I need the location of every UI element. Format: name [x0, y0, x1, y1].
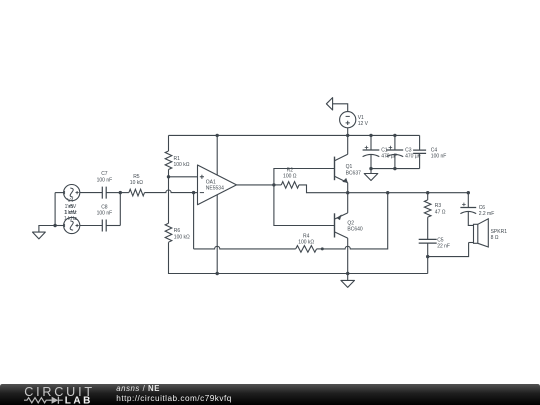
transistor Q1 (NPN BC637) [335, 154, 348, 183]
svg-text:10 kΩ: 10 kΩ [130, 180, 143, 186]
op-amp V- pin [216, 195, 218, 274]
wire R4 right [317, 248, 323, 250]
op-amp V+ pin [216, 135, 218, 175]
svg-text:R3: R3 [435, 203, 442, 209]
node Q1 emitter on rail [346, 191, 349, 194]
wire C6 to speaker [468, 212, 473, 226]
label C3 [405, 148, 421, 160]
wire to + input [169, 176, 198, 178]
wire - input down [193, 193, 195, 249]
svg-text:12 V: 12 V [358, 121, 369, 127]
footer title text [116, 384, 232, 403]
label Q2 [347, 221, 363, 233]
node + input junction [167, 175, 170, 178]
label C4 [431, 148, 447, 160]
svg-text:R5: R5 [133, 174, 140, 180]
node C1 bottom [369, 167, 372, 170]
node output junction [272, 183, 275, 186]
wire R3 to C5 [427, 217, 429, 239]
svg-text:http://circuitlab.com/c79kvfq: http://circuitlab.com/c79kvfq [116, 394, 232, 403]
svg-text:2.2 mF: 2.2 mF [479, 211, 495, 217]
label V1 [358, 115, 369, 127]
wire C7 to node [106, 192, 120, 194]
wire C5 bottom [427, 243, 429, 257]
svg-text:V5: V5 [67, 204, 73, 210]
wire output to R2 [274, 184, 281, 186]
ground (center) [341, 274, 355, 288]
node C6 top on rail [467, 191, 470, 194]
svg-text:V1: V1 [358, 115, 364, 121]
wire R3 top [427, 193, 429, 200]
capacitor C3 (polarized) [387, 146, 404, 157]
wire V1 to top rail [347, 128, 349, 136]
resistor R3 [424, 200, 431, 217]
label C6 [479, 205, 495, 217]
wire cap lower rail [371, 168, 420, 170]
capacitor C1 (polarized) [363, 146, 380, 157]
svg-text:R4: R4 [303, 233, 310, 239]
wire divider column to R6 [168, 177, 170, 224]
svg-text:100 nF: 100 nF [431, 154, 447, 160]
resistor R4 [296, 246, 317, 253]
speaker SPKR1 [474, 219, 489, 247]
resistor R1 [165, 151, 172, 169]
node R3 top on rail [426, 191, 429, 194]
node R4 right terminal [321, 247, 324, 250]
capacitor C6 (polarized) [460, 203, 476, 214]
node - input junction [192, 191, 195, 194]
wire left column vertical [54, 193, 56, 226]
svg-text:R1: R1 [174, 156, 181, 162]
node V- pin on ground rail [216, 272, 219, 275]
voltage source V1 [340, 112, 356, 128]
label OA1 [206, 179, 224, 191]
capacitor C4 [413, 150, 426, 153]
svg-text:100 kΩ: 100 kΩ [174, 234, 190, 240]
resistor R6 [165, 223, 172, 242]
wire C3 top lead [394, 135, 396, 150]
node C7/R5/C8 [119, 191, 122, 194]
transistor Q2 (PNP BC640) [335, 213, 348, 238]
wire C1 bottom lead [370, 155, 372, 169]
wire V5 right to C8 [80, 225, 103, 227]
svg-text:ansns / NE: ansns / NE [116, 384, 160, 393]
wire output up to Q1 base [274, 169, 335, 185]
op-amp OA1 [198, 165, 237, 205]
label R1 [174, 156, 190, 168]
wire C1 top lead [370, 135, 372, 150]
footer bar [0, 384, 540, 405]
wire top rail [169, 134, 420, 136]
label R5 [130, 174, 143, 186]
voltage source V4 (sine) [64, 185, 80, 201]
label C8 [97, 204, 113, 216]
wire C4 top lead [419, 135, 421, 150]
wire feedback horizontal with hops [194, 246, 296, 249]
resistor R5 [129, 189, 145, 196]
label C7 [97, 171, 113, 183]
wire C4 bottom lead [419, 153, 421, 168]
wire Q1 emitter to rail [347, 183, 349, 193]
label Q1 [346, 164, 362, 176]
node Q2 collector on ground rail [346, 272, 349, 275]
voltage source V5 (sine) [64, 217, 80, 233]
svg-text:C4: C4 [431, 148, 438, 154]
node junction left sources [53, 224, 56, 227]
ground (left) [33, 232, 46, 239]
svg-text:R6: R6 [174, 228, 181, 234]
wire C3 bottom lead [394, 155, 396, 169]
svg-text:8 Ω: 8 Ω [491, 235, 499, 241]
svg-text:Q1: Q1 [346, 164, 353, 170]
svg-text:100 kΩ: 100 kΩ [298, 239, 314, 245]
wire V4 right to C7 [80, 192, 103, 194]
logo resistor-diode glyph [24, 397, 63, 404]
svg-text:C5: C5 [437, 237, 444, 243]
ground (capacitor bank) [364, 169, 378, 181]
wire C8 to node column [106, 225, 120, 227]
label R2 [283, 168, 297, 180]
wire Q1 collector to top rail [347, 135, 349, 154]
wire to ground left [39, 226, 55, 233]
power flag at V1 [326, 98, 347, 112]
svg-text:100 Ω: 100 Ω [283, 174, 297, 180]
node C3 top [393, 134, 396, 137]
svg-text:C7: C7 [101, 171, 108, 177]
svg-text:NE5534: NE5534 [206, 186, 224, 192]
wire speaker bottom terminal [469, 242, 474, 244]
wire V4 left to left column [55, 192, 64, 194]
svg-text:V4: V4 [67, 198, 73, 204]
wire speaker bottom rail [428, 243, 469, 257]
wire Q2 collector down to ground rail [347, 238, 349, 273]
CircuitLab logo wordmark [24, 385, 95, 405]
svg-text:470 µF: 470 µF [405, 154, 421, 160]
label V4 [64, 198, 77, 216]
svg-text:C3: C3 [405, 148, 412, 154]
node C3 bottom [393, 167, 396, 170]
node V+ pin on top rail [216, 134, 219, 137]
svg-text:Q2: Q2 [347, 221, 354, 227]
capacitor C5 [419, 239, 437, 243]
svg-text:47 Ω: 47 Ω [435, 209, 446, 215]
node speaker return [426, 255, 429, 258]
wire R2 to emitter rail [299, 185, 468, 193]
svg-text:C6: C6 [479, 205, 486, 211]
svg-text:SPKR1: SPKR1 [491, 229, 508, 235]
wire node down to C8 level [119, 193, 121, 226]
label R4 [298, 233, 314, 245]
svg-text:100 kΩ: 100 kΩ [174, 162, 190, 168]
svg-text:BC637: BC637 [346, 170, 362, 176]
node C1 top [369, 134, 372, 137]
wire Q2 emitter to rail [347, 193, 349, 213]
label C1 [381, 148, 397, 160]
wire into - input [194, 192, 198, 194]
wire V5 left [55, 225, 64, 227]
node feedback on emitter rail [386, 191, 389, 194]
label R6 [174, 228, 190, 240]
label V5 [64, 204, 77, 222]
svg-text:22 nF: 22 nF [437, 244, 450, 250]
svg-text:LAB: LAB [65, 396, 93, 405]
op-amp output wire [237, 184, 274, 186]
label R3 [435, 203, 446, 215]
resistor R2 [281, 182, 299, 189]
svg-text:1 mV: 1 mV [65, 210, 77, 216]
svg-text:100 nF: 100 nF [97, 211, 113, 217]
wire R1 bottom [168, 170, 170, 177]
wire R4 to output column with hop over Q2 collector [322, 193, 387, 249]
wire ground rail up to speaker return [427, 257, 429, 274]
svg-text:BC640: BC640 [347, 227, 363, 233]
wire output down to Q2 base [274, 185, 335, 226]
svg-text:1 kHz: 1 kHz [64, 216, 77, 222]
wire R6 bottom to ground rail [169, 242, 428, 273]
svg-text:OA1: OA1 [206, 179, 216, 185]
svg-text:100 nF: 100 nF [97, 177, 113, 183]
node V1 on top rail [346, 134, 349, 137]
label C5 [437, 237, 450, 249]
svg-text:C8: C8 [101, 204, 108, 210]
wire R5 to - input with hop over divider column [145, 190, 194, 193]
label SPKR1 [491, 229, 508, 241]
wire R1 top [168, 135, 170, 151]
wire C6 top lead [467, 193, 469, 208]
wire node to R5 [120, 192, 129, 194]
capacitor C8 [102, 220, 106, 232]
capacitor C7 [102, 187, 106, 199]
